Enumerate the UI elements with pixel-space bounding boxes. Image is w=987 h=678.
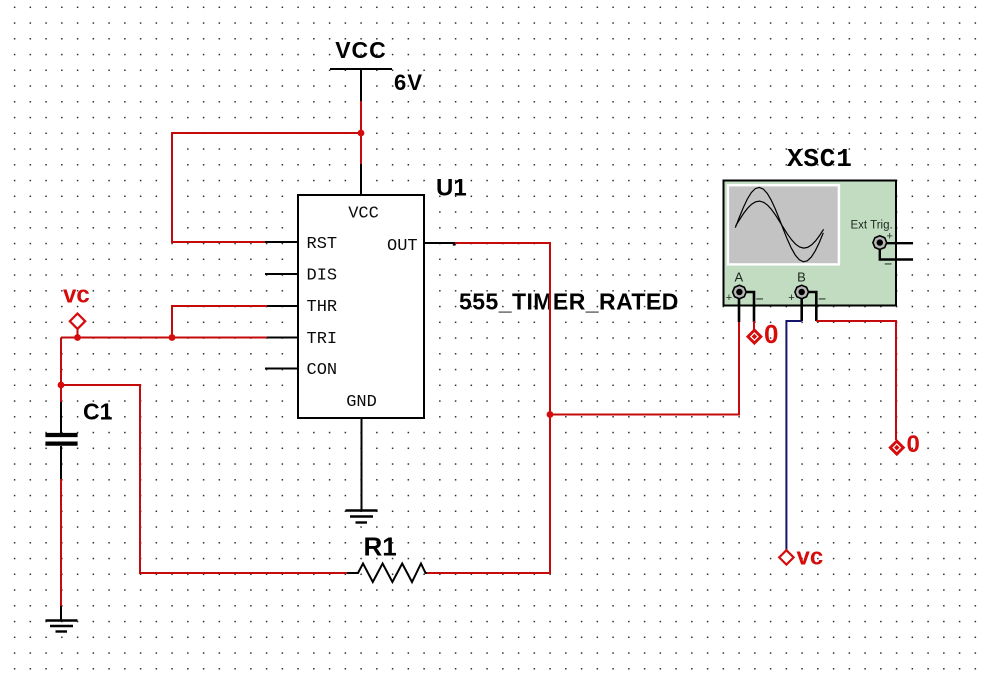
power symbol VCC [330, 37, 392, 102]
resistor R1 [347, 564, 428, 583]
ground under U1 [346, 511, 378, 523]
pin GND (bottom) [346, 393, 377, 510]
wire A plus lead (black) [738, 298, 741, 322]
wire B plus lead (black) [800, 298, 803, 321]
wire A minus stub to probe 0 [753, 321, 755, 331]
svg-text:−: − [818, 291, 826, 307]
svg-text:Ext Trig.: Ext Trig. [851, 219, 893, 231]
svg-text:TRI: TRI [307, 330, 338, 349]
capacitor C1 [45, 402, 77, 480]
probe 0 (B minus) [890, 431, 920, 458]
ground under C1 [46, 606, 78, 632]
svg-text:OUT: OUT [387, 237, 418, 256]
terminal B [788, 270, 826, 307]
svg-text:CON: CON [307, 361, 338, 380]
svg-text:VCC: VCC [348, 205, 379, 224]
probe vc (bottom) [779, 544, 823, 571]
svg-text:XSC1: XSC1 [787, 144, 853, 174]
svg-text:B: B [797, 270, 806, 285]
svg-text:+: + [887, 231, 893, 243]
svg-text:C1: C1 [83, 399, 113, 425]
svg-text:A: A [734, 270, 743, 285]
svg-text:VCC: VCC [335, 37, 387, 63]
pin THR [265, 298, 337, 317]
pin TRI [265, 330, 337, 349]
node junction at VCC wire [358, 130, 365, 137]
terminal Ext Trig [873, 231, 893, 272]
probe vc (left) [63, 282, 90, 338]
svg-text:vc: vc [797, 544, 824, 571]
svg-text:GND: GND [346, 393, 377, 412]
svg-text:vc: vc [63, 282, 90, 309]
svg-text:R1: R1 [364, 532, 397, 562]
pin VCC (top) [348, 164, 379, 224]
wire THR branch [172, 306, 267, 338]
node junction at vc probe [74, 334, 81, 341]
svg-text:0: 0 [907, 431, 920, 458]
oscilloscope XSC1 body [724, 181, 897, 306]
op: 555 timer U1 box [298, 195, 424, 418]
scope waveform trace B [736, 201, 824, 248]
svg-text:6V: 6V [394, 70, 423, 95]
svg-text:−: − [756, 291, 764, 307]
svg-text:+: + [788, 292, 794, 304]
wire VCC to U1 VCC pin [360, 101, 362, 165]
svg-text:DIS: DIS [307, 267, 338, 286]
wire A minus lead (black) [746, 292, 754, 322]
wire Ext Trig plus [886, 242, 913, 244]
svg-text:+: + [726, 292, 732, 304]
svg-text:555_TIMER_RATED: 555_TIMER_RATED [459, 289, 679, 315]
probe 0 (A minus) [747, 319, 778, 349]
wire B minus lead (black) [808, 292, 816, 321]
wire OUT net [427, 243, 550, 573]
wire OUT branch to scope A [550, 322, 739, 415]
wire C1 bottom to ground [60, 479, 62, 607]
node junction OUT branch [547, 411, 554, 418]
wire B minus net (red) to probe 0 [816, 321, 896, 440]
svg-text:THR: THR [307, 298, 338, 317]
svg-text:0: 0 [764, 319, 778, 349]
node junction at C1 top [58, 382, 65, 389]
pin RST [265, 235, 337, 254]
scope waveform trace A [735, 187, 823, 261]
terminal A [726, 270, 764, 307]
wire TRI net from vc [61, 337, 267, 339]
pin DIS [265, 267, 337, 286]
wire junction to R1 left [61, 385, 348, 573]
wire B plus net (navy) to vc probe [786, 321, 801, 551]
svg-text:RST: RST [307, 235, 338, 254]
pin OUT [387, 237, 456, 256]
svg-text:−: − [884, 256, 892, 272]
node junction THR/TRI [169, 334, 176, 341]
wire TRI column down to C1/R1 junction [60, 338, 62, 403]
wire Ext Trig minus [880, 250, 913, 260]
wire VCC branch to RST [172, 133, 361, 242]
pin CON [265, 361, 337, 380]
scope display screen [728, 185, 839, 264]
svg-text:U1: U1 [436, 175, 467, 202]
